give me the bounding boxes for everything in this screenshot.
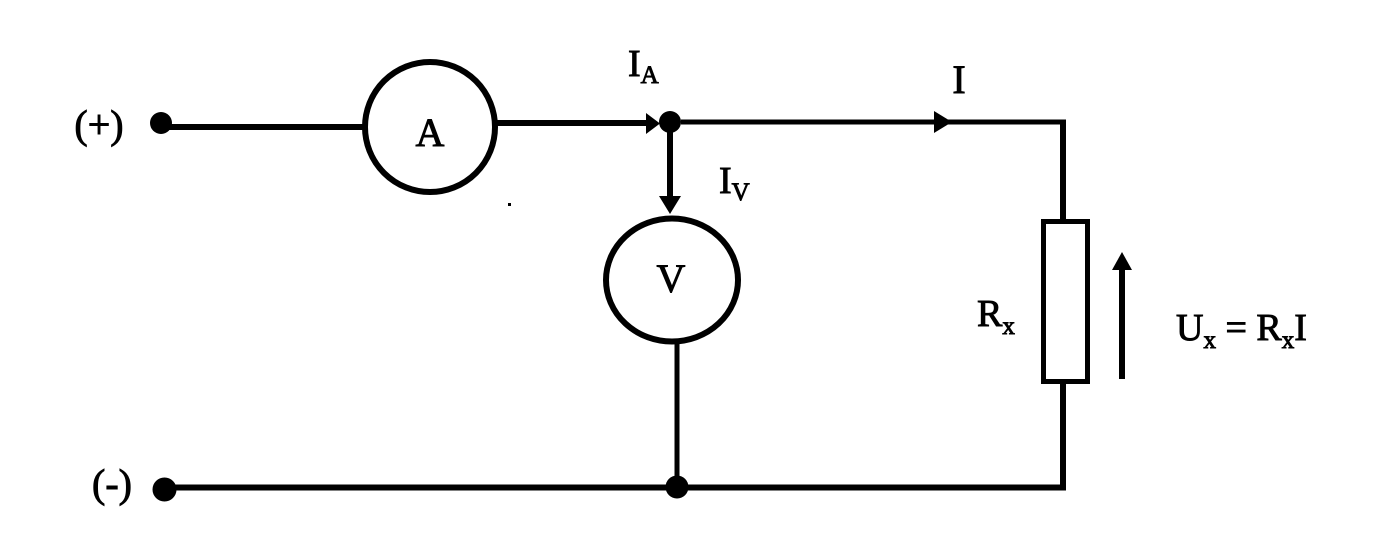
svg-text:(+): (+) <box>74 102 123 147</box>
node A junction dot <box>659 111 681 133</box>
svg-text:I: I <box>952 57 965 102</box>
arrowhead into node A <box>646 113 660 134</box>
wire: node A to right corner <box>681 120 1065 125</box>
svg-text:(-): (-) <box>92 461 132 506</box>
ink speck <box>508 203 511 206</box>
ammeter U1 circle <box>365 62 495 192</box>
terminal dot (+) <box>150 112 172 134</box>
wire: resistor bottom to bottom rail corner <box>1060 381 1066 488</box>
terminal dot (-) <box>153 478 177 502</box>
wire: voltmeter to bottom rail <box>675 344 680 487</box>
wire: node A down toward voltmeter <box>667 122 673 202</box>
svg-text:A: A <box>416 110 445 155</box>
wire: ammeter to node A <box>495 120 650 126</box>
voltmeter U2 circle <box>606 219 738 342</box>
arrowhead current I <box>934 111 952 133</box>
wire: right vertical upper segment <box>1060 120 1066 223</box>
svg-text:V: V <box>657 256 686 301</box>
arrowhead current I_V (down) <box>659 196 681 214</box>
bottom junction dot <box>666 476 689 499</box>
resistor Rx body <box>1044 222 1088 382</box>
wire: (+) terminal to ammeter <box>166 124 365 130</box>
wire: bottom rail <box>161 485 1066 491</box>
voltage arrow Ux (up) <box>1112 252 1132 379</box>
